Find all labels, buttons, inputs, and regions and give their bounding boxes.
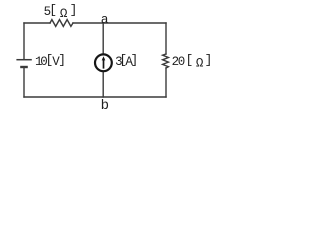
svg-text:]: ] (70, 2, 78, 17)
resistor R1 5 ohm zigzag (50, 20, 73, 27)
svg-text:]: ] (58, 52, 66, 67)
svg-text:]: ] (205, 52, 213, 67)
current source I1 circle (95, 54, 112, 71)
current source I1 arrow shaft (103, 58, 105, 69)
svg-text:[: [ (186, 52, 194, 67)
battery V1 long plate (16, 59, 31, 61)
svg-text:a: a (101, 12, 109, 27)
wire bottom (24, 96, 166, 98)
current source I1 arrow head (102, 56, 106, 60)
wire battery V1 to bottom-left corner (23, 68, 25, 98)
wire left side top to battery V1 (23, 23, 25, 59)
svg-text:]: ] (131, 52, 139, 67)
svg-text:b: b (101, 98, 109, 114)
svg-text:Ω: Ω (60, 7, 68, 21)
svg-text:[: [ (49, 2, 57, 17)
node a wire stub (102, 23, 104, 54)
svg-text:0: 0 (178, 55, 186, 69)
svg-text:Ω: Ω (196, 57, 204, 71)
wire right side top to resistor R2 (165, 23, 167, 54)
resistor R2 20 ohm zigzag (163, 54, 169, 68)
wire resistor R2 to bottom-right corner (165, 68, 167, 97)
wire top-left corner to resistor R1 (24, 22, 50, 24)
wire resistor R1 to top-right corner (73, 22, 166, 24)
node b wire stub (102, 72, 104, 97)
battery V1 short plate (20, 66, 28, 68)
